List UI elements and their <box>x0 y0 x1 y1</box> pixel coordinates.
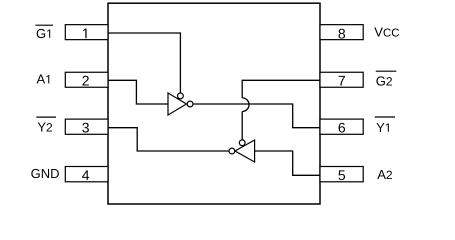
svg-text:8: 8 <box>338 25 346 41</box>
svg-text:Y: Y <box>376 120 385 135</box>
U1b output bubble <box>229 148 235 154</box>
wire hop over Y1 wire <box>242 98 249 112</box>
label G1 (active low) <box>36 25 54 41</box>
wire pin5 A2 to input of U1b <box>255 151 320 175</box>
pin 1 box <box>65 25 108 40</box>
pin 2 box <box>65 72 108 87</box>
svg-text:2: 2 <box>82 72 90 88</box>
svg-text:6: 6 <box>338 120 346 136</box>
svg-text:G: G <box>36 26 46 41</box>
U1a enable bubble <box>178 93 184 99</box>
wire pin7 G2 (lower segment) <box>241 112 243 140</box>
wire pin1 G1 to enable bubble of U1a <box>108 33 180 93</box>
svg-text:7: 7 <box>338 72 346 88</box>
pin 7 box <box>320 72 363 87</box>
svg-text:GND: GND <box>31 166 60 181</box>
U1a output bubble <box>187 101 193 107</box>
svg-text:4: 4 <box>82 167 90 183</box>
svg-text:G2: G2 <box>376 74 393 89</box>
pin 6 box <box>320 119 363 134</box>
wire U1a output to pin6 Y1 <box>193 104 320 128</box>
svg-text:A2: A2 <box>377 167 393 182</box>
IC package outline U1 <box>108 3 320 204</box>
svg-text:A: A <box>37 71 46 86</box>
label Y1 (active low) <box>375 117 395 135</box>
wire pin7 G2 down to enable bubble of U1b (upper segment) <box>242 80 320 98</box>
svg-text:5: 5 <box>338 167 346 183</box>
pin 5 box <box>320 167 363 182</box>
pin 8 box <box>320 25 363 40</box>
tri-state inverter U1b triangle <box>235 140 255 162</box>
label Y2 (active low) <box>36 117 56 134</box>
U1b enable bubble <box>239 140 245 146</box>
tri-state inverter U1a triangle <box>168 93 187 115</box>
svg-text:VCC: VCC <box>374 25 399 40</box>
pin 3 box <box>65 119 108 134</box>
wire pin2 A1 to input of U1a <box>108 80 168 104</box>
pin 1 number <box>83 29 86 39</box>
label G2 (active low) <box>376 71 397 88</box>
wire U1b output to pin3 Y2 <box>108 128 229 151</box>
pin 4 box <box>65 167 108 182</box>
svg-text:Y2: Y2 <box>37 119 53 134</box>
svg-text:3: 3 <box>82 120 90 136</box>
